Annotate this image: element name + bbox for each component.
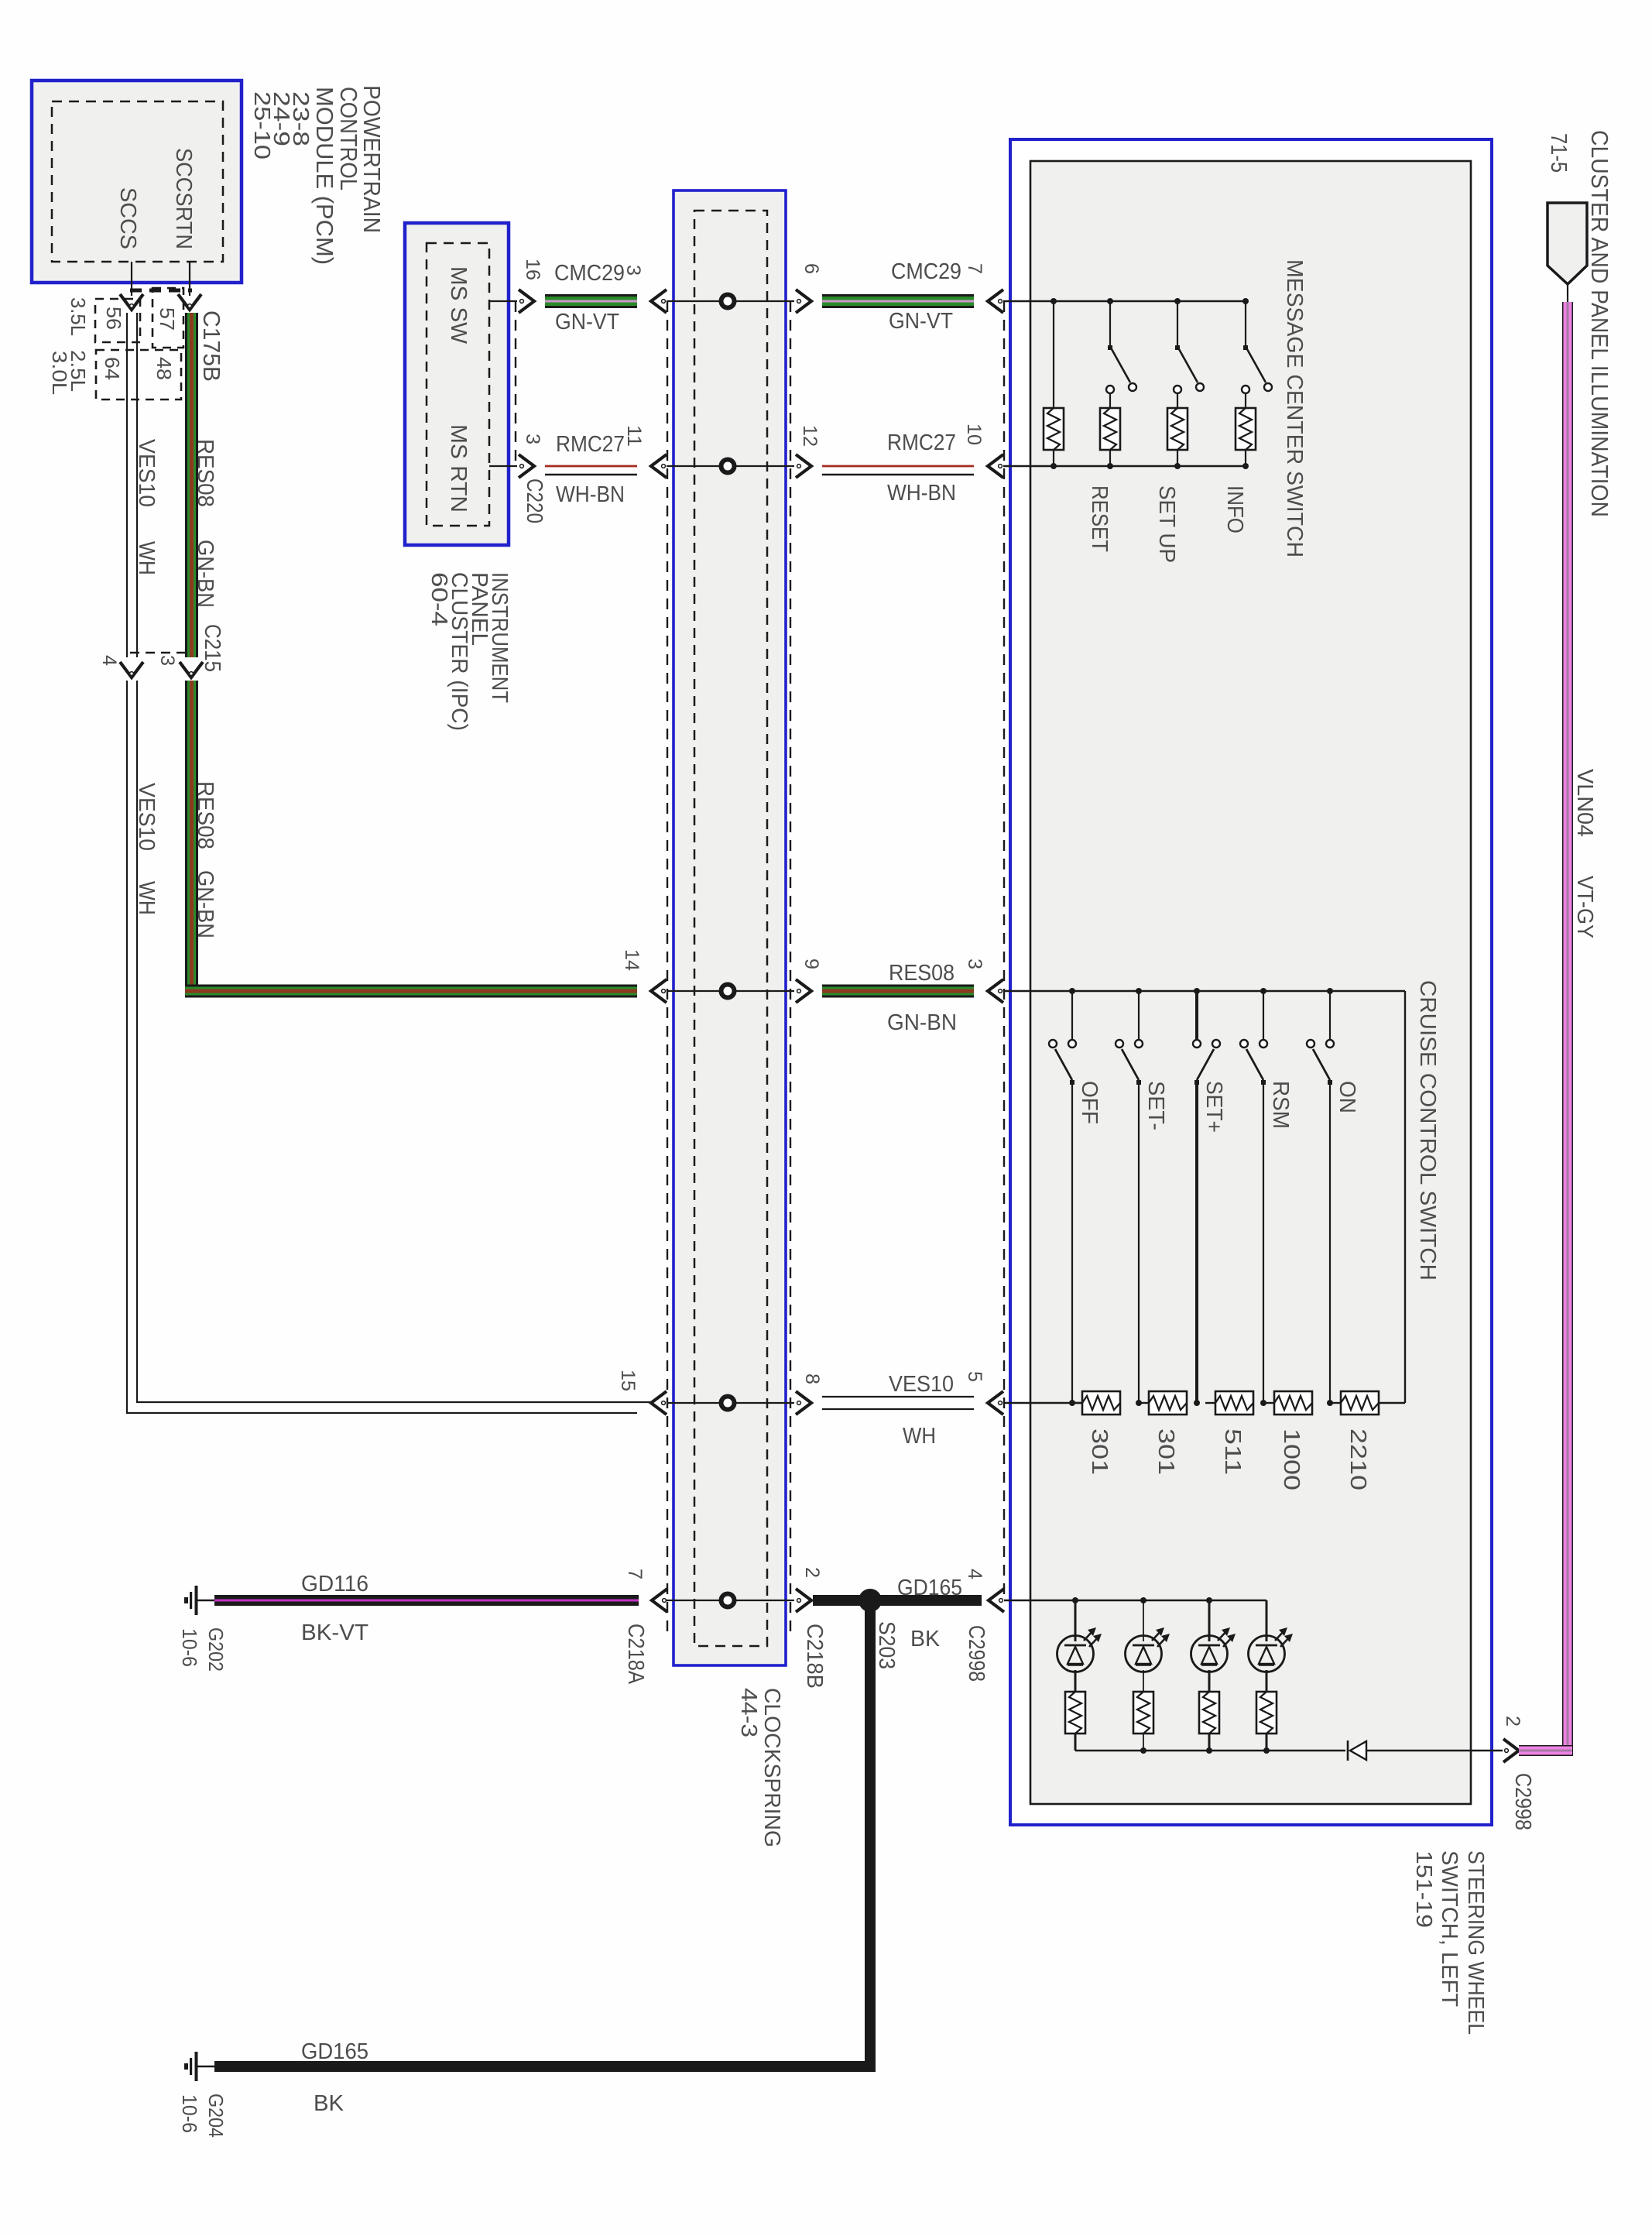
- wire bus right return: [1404, 991, 1406, 1403]
- svg-text:71-5: 71-5: [1546, 133, 1571, 173]
- connector arrow C2998 pin 3: [988, 979, 1003, 1003]
- wire VES10 WH right segment (white): [822, 1396, 974, 1397]
- svg-text:WH: WH: [134, 541, 159, 575]
- wire GD165 BK vertical + bottom run: [865, 1600, 876, 2072]
- svg-text:4: 4: [98, 655, 120, 666]
- splice S203: [859, 1589, 882, 1612]
- svg-text:RSM: RSM: [1268, 1081, 1293, 1129]
- resistor 1000: [1274, 1391, 1312, 1415]
- svg-text:OFF: OFF: [1077, 1081, 1102, 1124]
- LED 1: [1057, 1636, 1094, 1672]
- svg-text:RMC27: RMC27: [887, 430, 956, 455]
- wire stubs from PCM pins: [131, 262, 132, 296]
- connector arrow C218A pin 15: [651, 1391, 667, 1415]
- svg-text:WH-BN: WH-BN: [887, 481, 956, 506]
- svg-text:G202: G202: [204, 1627, 228, 1672]
- svg-text:VES10: VES10: [134, 439, 159, 507]
- svg-text:BK: BK: [910, 1627, 941, 1651]
- svg-text:WH: WH: [903, 1424, 936, 1449]
- wire VES10 WH vertical (white, double line): [127, 313, 137, 657]
- resistor LED 4: [1256, 1692, 1277, 1734]
- svg-text:CMC29: CMC29: [554, 261, 625, 286]
- svg-text:VES10: VES10: [134, 783, 159, 851]
- wire CMC29 GN-VT left segment: [545, 294, 637, 308]
- svg-text:60-4: 60-4: [427, 572, 451, 626]
- clockspring bullet row5: [721, 1594, 735, 1607]
- connector arrow C218A pin 7: [652, 1589, 667, 1612]
- clockspring bullet row4: [721, 1397, 735, 1410]
- resistor LED 3: [1199, 1692, 1219, 1734]
- svg-text:9: 9: [800, 959, 822, 969]
- wire bus VES10 return: [1003, 1402, 1082, 1404]
- switch SET+: [1194, 988, 1200, 994]
- svg-text:3.5L: 3.5L: [67, 297, 90, 336]
- svg-text:WH-BN: WH-BN: [556, 482, 625, 507]
- svg-text:SCCSRTN: SCCSRTN: [171, 148, 196, 249]
- svg-text:VLN04: VLN04: [1572, 769, 1597, 837]
- clockspring bullet row2: [721, 460, 735, 473]
- connector arrow C218B pin 2: [796, 1589, 811, 1612]
- power feed flag: cluster and panel illumination: [1547, 203, 1587, 284]
- svg-text:MS RTN: MS RTN: [446, 424, 471, 513]
- connector arrow C220 pin 3: [519, 454, 534, 478]
- diode D1: [1347, 1740, 1349, 1761]
- svg-text:CONTROL: CONTROL: [335, 87, 362, 190]
- svg-text:C215: C215: [200, 624, 224, 672]
- svg-text:INFO: INFO: [1222, 485, 1247, 533]
- svg-text:10: 10: [963, 424, 985, 445]
- svg-text:SET+: SET+: [1201, 1081, 1226, 1133]
- svg-text:25-10: 25-10: [249, 91, 274, 159]
- svg-text:C175B: C175B: [198, 310, 225, 382]
- resistor LED 1: [1065, 1692, 1085, 1734]
- LED return bus: [1075, 1750, 1345, 1751]
- resistor RESET: [1100, 408, 1120, 450]
- svg-text:GN-BN: GN-BN: [887, 1010, 957, 1035]
- resistor INFO: [1236, 408, 1256, 450]
- wire RES08 GN-BN horizontal run to clockspring: [185, 985, 637, 998]
- steering wheel switch box: [1010, 139, 1492, 1825]
- switch OFF: [1069, 988, 1075, 994]
- switch ON: [1327, 988, 1333, 994]
- svg-text:GD165: GD165: [301, 2039, 368, 2064]
- connector dashed line C218B: [790, 301, 791, 1638]
- svg-text:64: 64: [101, 357, 124, 380]
- clockspring bullet row1: [721, 295, 735, 308]
- svg-text:301: 301: [1087, 1428, 1112, 1475]
- connector arrow C218B pin 8: [796, 1391, 811, 1415]
- svg-text:MESSAGE CENTER SWITCH: MESSAGE CENTER SWITCH: [1282, 259, 1307, 557]
- svg-text:RES08: RES08: [889, 961, 955, 986]
- connector dashed line C220: [515, 301, 516, 466]
- svg-text:RES08: RES08: [193, 781, 218, 849]
- svg-text:301: 301: [1153, 1428, 1178, 1475]
- LED 4: [1249, 1636, 1285, 1672]
- svg-text:C2998: C2998: [1510, 1773, 1535, 1830]
- svg-text:5: 5: [964, 1371, 985, 1382]
- svg-text:SWITCH, LEFT: SWITCH, LEFT: [1437, 1850, 1462, 2007]
- resistor LED 2: [1133, 1692, 1153, 1734]
- wire CMC29 row: [489, 300, 517, 302]
- svg-text:3: 3: [964, 959, 985, 969]
- svg-text:RESET: RESET: [1087, 485, 1112, 552]
- clockspring bullet row3: [721, 985, 735, 998]
- svg-text:11: 11: [623, 425, 645, 447]
- connector C175B bold dashed line: [130, 289, 192, 293]
- svg-text:CLUSTER AND PANEL ILLUMINATION: CLUSTER AND PANEL ILLUMINATION: [1586, 130, 1613, 517]
- connector arrow C2998 pin 2: [1503, 1739, 1519, 1762]
- svg-text:CLOCKSPRING: CLOCKSPRING: [759, 1688, 784, 1847]
- svg-text:1000: 1000: [1279, 1428, 1304, 1490]
- switch RSM: [1260, 988, 1266, 994]
- wire VLN04 VT-GY bottom elbow: [1519, 1745, 1573, 1756]
- wire bus GD165 feed: [1004, 1600, 1266, 1601]
- wire RES08 GN-BN vertical (green/brown): [185, 313, 198, 657]
- resistor 301: [1149, 1391, 1187, 1415]
- svg-text:G204: G204: [204, 2094, 228, 2138]
- svg-text:C218A: C218A: [623, 1624, 648, 1685]
- svg-text:VT-GY: VT-GY: [1572, 876, 1597, 938]
- ground G204: [195, 2052, 198, 2081]
- svg-text:2210: 2210: [1345, 1428, 1370, 1490]
- svg-text:VES10: VES10: [889, 1372, 954, 1397]
- svg-text:3: 3: [522, 434, 543, 444]
- svg-text:GD116: GD116: [301, 1572, 368, 1596]
- connector arrow C220 pin 16: [519, 290, 534, 313]
- svg-text:3: 3: [156, 655, 178, 666]
- connector dashed line C218A: [667, 301, 668, 1638]
- svg-text:2: 2: [1502, 1716, 1523, 1727]
- svg-text:C2998: C2998: [964, 1625, 989, 1682]
- resistor 2210: [1341, 1391, 1379, 1415]
- svg-text:CRUISE CONTROL SWITCH: CRUISE CONTROL SWITCH: [1415, 980, 1440, 1281]
- svg-text:STEERING WHEEL: STEERING WHEEL: [1463, 1850, 1488, 2035]
- svg-text:2: 2: [801, 1567, 823, 1578]
- connector arrow C218B pin 6: [796, 290, 811, 313]
- svg-text:4: 4: [964, 1569, 985, 1579]
- connector arrow C2998 pin 7: [988, 290, 1003, 313]
- svg-text:RES08: RES08: [193, 439, 218, 507]
- svg-text:6: 6: [800, 263, 822, 274]
- svg-text:C218B: C218B: [802, 1624, 827, 1689]
- wire VLN04 VT-GY vertical: [1562, 302, 1573, 1751]
- connector arrow C175B pin 56: [120, 294, 143, 310]
- connector arrow C218A pin 3: [651, 290, 667, 313]
- connector arrow C218B pin 12: [796, 454, 811, 478]
- svg-text:MODULE (PCM): MODULE (PCM): [311, 87, 338, 265]
- svg-text:RMC27: RMC27: [556, 432, 625, 457]
- connector arrow C2998 pin 4: [989, 1589, 1004, 1612]
- svg-text:SET UP: SET UP: [1154, 485, 1179, 563]
- switch RESET: [1109, 301, 1111, 348]
- connector arrow C175B pin 57: [178, 294, 201, 310]
- LED 2: [1126, 1636, 1162, 1672]
- svg-text:12: 12: [799, 425, 821, 447]
- branch (no switch) resistor: [1053, 301, 1054, 408]
- connector arrow C218A pin 14: [651, 979, 667, 1003]
- svg-text:GN-VT: GN-VT: [889, 309, 953, 334]
- connector arrow C2998 pin 10: [988, 454, 1003, 478]
- LED 3: [1191, 1636, 1228, 1672]
- svg-text:GN-VT: GN-VT: [555, 310, 619, 334]
- wire GD165 BK top segment: [813, 1595, 982, 1606]
- svg-text:SCCS: SCCS: [115, 187, 140, 249]
- svg-text:44-3: 44-3: [736, 1688, 761, 1737]
- C175B pin boxes: [95, 299, 140, 342]
- svg-text:SET-: SET-: [1143, 1081, 1168, 1130]
- svg-text:GN-BN: GN-BN: [193, 870, 218, 938]
- wire GD116 BK-VT: [214, 1595, 639, 1606]
- resistor message-center fixed: [1044, 408, 1064, 450]
- svg-text:151-19: 151-19: [1411, 1850, 1436, 1928]
- switch SET UP: [1177, 301, 1178, 348]
- clockspring box: [673, 190, 786, 1665]
- resistor ladder: [1072, 1402, 1082, 1404]
- svg-text:GN-BN: GN-BN: [193, 540, 218, 608]
- svg-text:56: 56: [102, 307, 125, 330]
- Powertrain Control Module (PCM) box: [32, 81, 242, 283]
- wire bus CMC29 feed: [1003, 300, 1246, 302]
- connector arrow C215 pin 3: [180, 662, 203, 677]
- connector C215: [130, 652, 192, 653]
- svg-text:8: 8: [801, 1373, 823, 1384]
- svg-text:511: 511: [1220, 1428, 1245, 1475]
- connector dashed line C2998: [1003, 301, 1005, 1596]
- resistor SET UP: [1167, 408, 1188, 450]
- wire RMC27 row: [489, 465, 517, 467]
- switch SET-: [1136, 988, 1142, 994]
- svg-text:ON: ON: [1335, 1081, 1359, 1113]
- connector arrow C218A pin 11: [651, 454, 667, 478]
- svg-text:3: 3: [622, 265, 644, 276]
- svg-text:BK-VT: BK-VT: [301, 1620, 368, 1645]
- svg-text:57: 57: [156, 307, 179, 331]
- svg-text:48: 48: [153, 357, 176, 380]
- ground G202: [195, 1586, 198, 1615]
- wire RMC27 WH-BN right segment: [822, 465, 974, 468]
- connector arrow C215 pin 4: [120, 662, 143, 677]
- svg-text:C220: C220: [522, 478, 547, 523]
- svg-text:7: 7: [964, 263, 985, 274]
- svg-text:16: 16: [522, 259, 543, 280]
- svg-text:BK: BK: [314, 2091, 344, 2116]
- svg-text:10-6: 10-6: [178, 1628, 201, 1667]
- connector arrow C2998 pin 5: [988, 1391, 1003, 1415]
- svg-text:3.0L: 3.0L: [48, 351, 71, 395]
- svg-text:10-6: 10-6: [178, 2094, 201, 2133]
- svg-text:14: 14: [621, 949, 643, 971]
- resistor 511: [1215, 1391, 1253, 1415]
- svg-text:WH: WH: [134, 881, 159, 915]
- wire bus RES08 feed: [1003, 990, 1405, 992]
- connector arrow C218B pin 9: [796, 979, 811, 1003]
- svg-text:MS SW: MS SW: [446, 266, 471, 345]
- wire RMC27 WH-BN left segment: [545, 465, 637, 468]
- svg-text:7: 7: [624, 1569, 646, 1579]
- wire RES08 GN-BN right segment: [822, 985, 974, 998]
- wire bus RMC27 return: [1003, 465, 1246, 467]
- svg-text:GD165: GD165: [897, 1576, 962, 1600]
- svg-text:S203: S203: [874, 1621, 899, 1669]
- Instrument Panel Cluster (IPC) box: [405, 223, 509, 545]
- svg-text:15: 15: [617, 1370, 639, 1391]
- switch INFO: [1245, 301, 1246, 348]
- svg-text:CMC29: CMC29: [891, 259, 961, 284]
- resistor 301: [1082, 1391, 1120, 1415]
- wire CMC29 GN-VT right segment: [822, 294, 974, 308]
